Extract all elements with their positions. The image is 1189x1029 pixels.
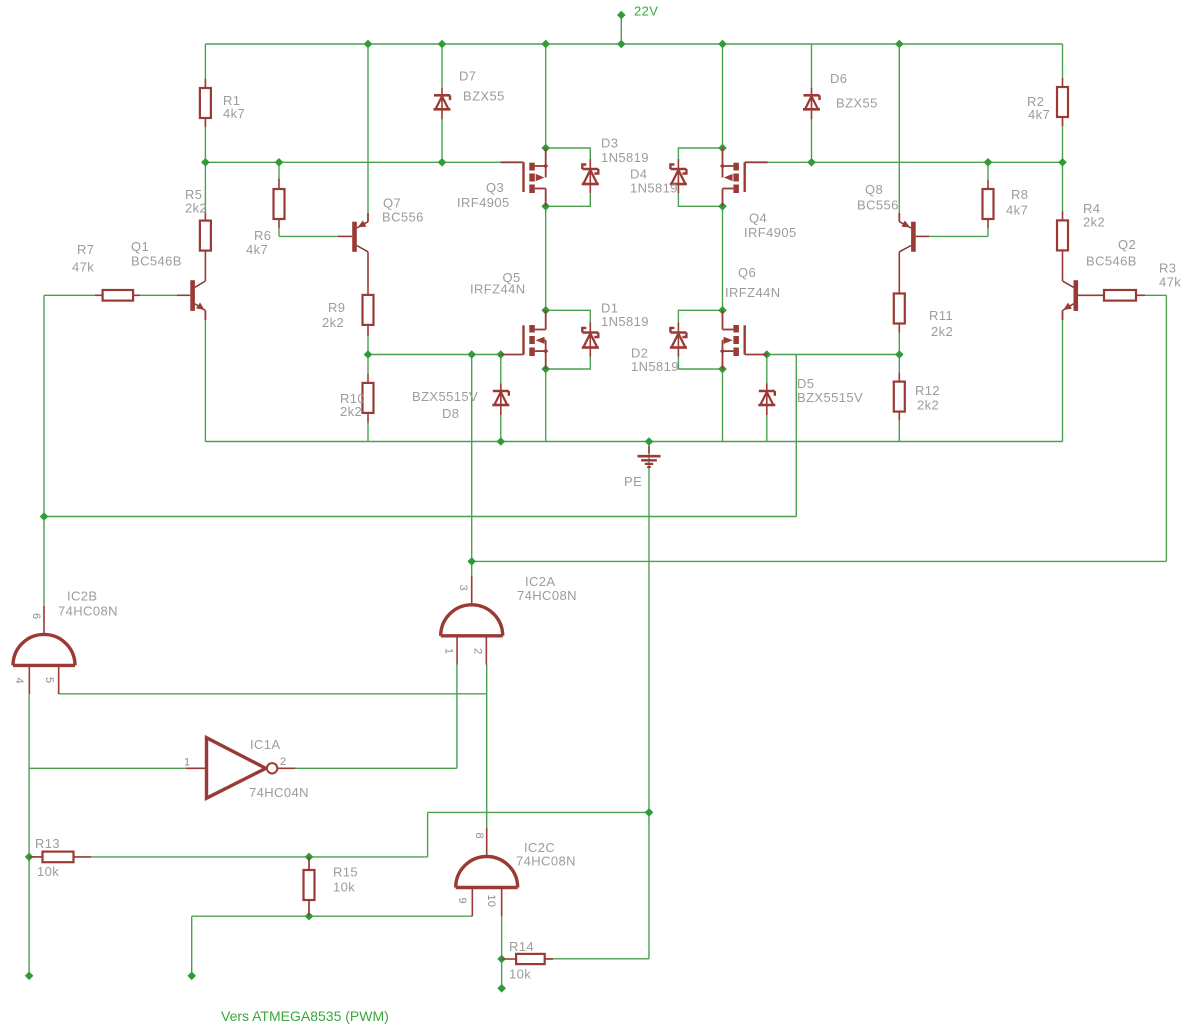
svg-text:BZX55: BZX55 [463,89,505,104]
svg-text:6: 6 [30,613,42,619]
svg-text:4k7: 4k7 [223,106,245,121]
svg-text:D6: D6 [830,71,847,86]
svg-text:1: 1 [443,648,455,654]
svg-text:1N5819: 1N5819 [631,359,679,374]
svg-text:2k2: 2k2 [931,324,953,339]
svg-text:2: 2 [280,756,287,768]
svg-text:BZX5515V: BZX5515V [797,390,863,405]
svg-text:BC556: BC556 [382,210,424,225]
svg-text:D8: D8 [442,406,459,421]
svg-text:BC546B: BC546B [1086,254,1137,269]
svg-text:1N5819: 1N5819 [601,314,649,329]
svg-text:Q7: Q7 [383,196,401,211]
svg-text:1: 1 [184,756,191,768]
svg-text:4k7: 4k7 [246,242,268,257]
svg-text:10: 10 [485,895,497,908]
svg-text:10k: 10k [333,880,355,895]
svg-text:R14: R14 [509,939,534,954]
svg-text:9: 9 [456,898,468,904]
svg-text:D4: D4 [630,167,647,182]
svg-text:47k: 47k [72,260,94,275]
svg-text:10k: 10k [509,967,531,982]
svg-text:R11: R11 [929,308,953,323]
svg-text:Q6: Q6 [738,265,756,280]
svg-text:47k: 47k [1159,275,1181,290]
svg-text:IRFZ44N: IRFZ44N [470,282,526,297]
svg-text:Q8: Q8 [865,182,883,197]
svg-text:R6: R6 [254,228,271,243]
svg-text:2k2: 2k2 [1083,215,1105,230]
svg-text:BZX55: BZX55 [836,96,878,111]
svg-text:1N5819: 1N5819 [630,181,678,196]
svg-text:R9: R9 [328,300,345,315]
svg-text:Q2: Q2 [1118,237,1136,252]
svg-text:R13: R13 [35,836,60,851]
svg-text:2k2: 2k2 [185,201,207,216]
svg-text:IRFZ44N: IRFZ44N [725,285,781,300]
svg-text:2: 2 [472,648,484,654]
svg-text:8: 8 [473,833,485,839]
svg-text:IC2B: IC2B [67,589,98,604]
svg-text:Q1: Q1 [131,239,149,254]
svg-text:2k2: 2k2 [340,404,362,419]
svg-text:IC1A: IC1A [250,737,281,752]
svg-text:IRF4905: IRF4905 [457,195,510,210]
svg-text:74HC04N: 74HC04N [249,785,309,800]
svg-text:BZX5515V: BZX5515V [412,389,478,404]
svg-text:5: 5 [43,677,55,683]
svg-text:10k: 10k [37,864,59,879]
svg-text:D5: D5 [797,376,814,391]
svg-text:R15: R15 [333,865,358,880]
svg-text:3: 3 [457,585,469,591]
svg-text:74HC08N: 74HC08N [58,604,118,619]
svg-text:R12: R12 [915,383,940,398]
svg-text:D3: D3 [601,136,618,151]
svg-text:D7: D7 [459,69,476,84]
svg-text:74HC08N: 74HC08N [516,854,576,869]
svg-text:IRF4905: IRF4905 [744,225,797,240]
svg-text:74HC08N: 74HC08N [517,588,577,603]
svg-text:IC2A: IC2A [525,574,556,589]
svg-text:Vers ATMEGA8535 (PWM): Vers ATMEGA8535 (PWM) [221,1008,389,1024]
svg-text:R7: R7 [77,242,94,257]
svg-text:BC556: BC556 [857,198,899,213]
svg-text:4k7: 4k7 [1006,203,1028,218]
svg-text:R3: R3 [1159,261,1176,276]
svg-text:PE: PE [624,474,642,489]
svg-text:2k2: 2k2 [322,315,344,330]
svg-text:R8: R8 [1011,187,1028,202]
svg-text:2k2: 2k2 [917,398,939,413]
svg-text:1N5819: 1N5819 [601,150,649,165]
svg-text:Q4: Q4 [749,211,767,226]
svg-text:Q3: Q3 [486,180,504,195]
svg-text:BC546B: BC546B [131,254,182,269]
svg-text:22V: 22V [634,4,658,19]
svg-text:4k7: 4k7 [1028,107,1050,122]
svg-text:4: 4 [13,678,25,684]
